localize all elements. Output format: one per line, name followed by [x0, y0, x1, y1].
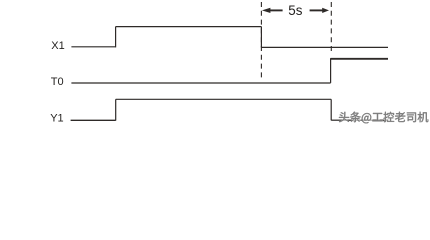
right arrow of 5s dimension — [310, 8, 329, 13]
dashed marker line at X1 falling edge — [260, 2, 262, 81]
svg-text:T0: T0 — [51, 76, 64, 88]
wire Y1 rising edge — [115, 99, 117, 120]
wire Y1 falling edge — [330, 99, 332, 120]
left arrow of 5s dimension — [262, 8, 283, 13]
watermark 头条@工控老司机 — [331, 112, 429, 125]
svg-text:Y1: Y1 — [50, 112, 63, 124]
wire T0 rising edge — [330, 58, 332, 83]
wire X1 rising edge — [115, 27, 117, 48]
dashed marker line at timer timeout — [330, 2, 332, 54]
wire T0 high segment — [331, 58, 388, 60]
wire Y1 low segment (right, under watermark) — [331, 119, 388, 121]
wire X1 low segment (left) — [71, 46, 115, 48]
wire X1 falling edge — [260, 27, 262, 48]
wire T0 low segment — [71, 82, 330, 84]
svg-text:5s: 5s — [288, 3, 302, 18]
wire Y1 low segment (left) — [71, 119, 116, 121]
svg-text:X1: X1 — [51, 40, 64, 52]
wire X1 high segment — [116, 26, 262, 28]
wire Y1 high segment — [116, 98, 332, 100]
wire X1 low segment (right) — [261, 46, 388, 48]
